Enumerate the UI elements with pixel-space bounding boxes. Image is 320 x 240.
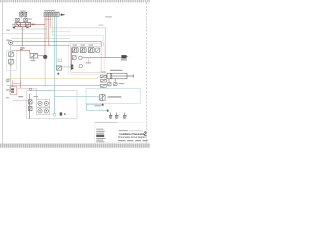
side symbol 2	[29, 106, 32, 110]
wire teal box top y90.4	[30, 89, 54, 91]
label below manifold	[44, 18, 50, 21]
filter symbol	[9, 52, 14, 57]
wire red y50.2	[12, 49, 30, 51]
wire teal vertical x86.4	[85, 103, 87, 110]
margin label y90	[6, 89, 9, 90]
wire pale green long y33.6	[3, 33, 47, 35]
manifold cell marks	[45, 13, 56, 15]
valve 1V1 mid	[30, 53, 38, 58]
wire pale green y31.8	[51, 31, 71, 33]
quad circle BR	[44, 109, 48, 113]
wire red y83.6 short	[13, 83, 21, 85]
wire red valve to gauge	[38, 55, 44, 57]
spring right of assembly	[31, 24, 33, 26]
label above box valve1	[73, 44, 77, 47]
drop red 2 from manifold	[48, 16, 50, 45]
label above manifold	[44, 9, 55, 12]
drop teal A from manifold	[53, 16, 55, 114]
drop pink from manifold	[50, 16, 52, 28]
wire teal y104.8	[86, 104, 101, 106]
circle at box top	[29, 88, 32, 91]
label above box valve2	[81, 44, 85, 47]
wire pink drop x105.7	[105, 28, 107, 58]
wire red drop to valve 1V	[29, 50, 31, 53]
wire teal y96.6 into box	[54, 96, 99, 98]
label above top-right text	[105, 16, 112, 17]
wire red drop into box x101.2	[100, 42, 102, 47]
quad circle BL	[38, 109, 42, 113]
margin label y80	[6, 79, 10, 80]
wire red long y41.6	[12, 41, 101, 43]
label below assembly	[20, 47, 25, 48]
margin label y40	[6, 40, 9, 41]
quad valve outer top	[37, 100, 50, 107]
pink dashed enclosure box	[69, 44, 104, 75]
wire pink right y27.9	[51, 27, 106, 29]
rod end tick	[133, 74, 135, 77]
label in box bottom	[86, 61, 91, 64]
fitting column label	[101, 71, 107, 74]
drop yellow from manifold	[52, 16, 54, 35]
right frame line	[146, 2, 148, 143]
drop greygreen from manifold	[46, 16, 48, 38]
small mark right	[64, 113, 65, 115]
wire pink drop x36.4	[35, 89, 37, 100]
teal end circle	[53, 113, 56, 116]
silencer 0Z2 hatched box right	[24, 12, 27, 16]
label right of fittings	[119, 82, 125, 85]
drop teal B from manifold	[55, 16, 57, 67]
quad valve outer bottom	[37, 107, 50, 114]
label near teal lines	[94, 104, 100, 107]
svg-text:Pneumatics circuit diagram: Pneumatics circuit diagram	[118, 136, 146, 139]
title block outline	[95, 123, 147, 143]
label right of valves	[28, 18, 32, 21]
title block logo block	[96, 135, 104, 137]
plug at teal line end 1	[102, 104, 104, 106]
fitting below cylinder 2	[114, 83, 117, 86]
wire orange long y85.7	[7, 85, 100, 87]
manifold distributor block	[44, 12, 59, 16]
plug at teal line end 2	[107, 110, 109, 112]
label above cylinder	[110, 70, 122, 71]
compressor source 0Z circle	[9, 40, 13, 44]
title small row above	[119, 129, 129, 132]
service unit box left	[7, 50, 17, 70]
wire red x12.8 into red box	[12, 80, 14, 87]
exhaust arrow right of manifold	[61, 14, 66, 16]
tiny valve near teal lower	[57, 66, 62, 70]
port mark below assembly right	[26, 27, 28, 28]
valve 1V1 bottom stub	[33, 58, 35, 61]
margin label y82	[6, 80, 9, 83]
wire teal y110.6	[86, 110, 106, 112]
silencer down 2	[115, 112, 118, 119]
wire dark vertical below assembly	[21, 27, 23, 47]
box valve 2V3	[88, 48, 94, 53]
fitting column symbol 1	[100, 75, 106, 78]
box valve 2V2	[80, 48, 86, 53]
wire yellow rise to fitting	[98, 76, 101, 78]
title block left col text rows	[96, 128, 103, 131]
flow control valve in teal box	[100, 94, 106, 101]
wire red stub above red box	[20, 80, 22, 88]
cylinder rod	[127, 75, 134, 77]
title block top dark line	[95, 122, 118, 124]
wire faint vertical gauge down	[44, 59, 46, 86]
small block mid box	[72, 56, 76, 60]
fitting column symbol 3	[100, 84, 106, 87]
wire green vertical from source	[10, 45, 12, 92]
quad circle TR	[44, 101, 48, 105]
silencer down 3	[123, 112, 126, 119]
connector block bottom left of box	[71, 65, 73, 70]
cylinder ports	[108, 79, 110, 83]
grey inner box	[71, 47, 101, 73]
inner left bar in box	[71, 48, 73, 70]
silencer down 1	[109, 112, 112, 119]
wire red y45.7	[12, 45, 71, 47]
teal box lower right	[86, 88, 140, 103]
fitting column symbol 2	[100, 79, 106, 82]
margin label y97	[6, 96, 9, 99]
label right of assembly	[32, 23, 35, 26]
left frame line	[2, 2, 4, 143]
title rule line	[130, 130, 143, 132]
red lockout box left	[10, 87, 17, 95]
bottom ruler strip	[0, 144, 150, 148]
tiny valve near teal upper	[58, 59, 61, 62]
wire grey vertical x20.7	[20, 50, 22, 80]
top ruler strip	[0, 0, 150, 2]
small dot below valve	[57, 73, 59, 75]
label in teal box	[108, 96, 122, 97]
small dark comp right of teal circle	[60, 112, 62, 115]
gauge dark circle	[43, 55, 47, 59]
label below switch	[121, 59, 127, 60]
wire greygreen y29	[13, 28, 47, 30]
regulator symbol	[9, 59, 14, 66]
title bottom tiny row	[118, 140, 126, 141]
port mark below assembly left	[13, 27, 15, 29]
wire red in box to switch	[82, 57, 121, 59]
quad circle TL	[38, 101, 42, 105]
wire red from assembly to manifold drop	[30, 24, 45, 26]
gauge circle bottom in box	[79, 64, 83, 68]
marks in red box	[11, 88, 14, 90]
label above quad block	[34, 95, 39, 98]
red core of valve assembly	[16, 24, 30, 26]
wire yellow y35.6	[53, 35, 104, 37]
wire yellow long y78.6	[7, 78, 98, 80]
grey box bottom-left cluster	[27, 90, 77, 118]
box valve 2V1	[72, 48, 78, 53]
label above box valve3	[89, 44, 93, 47]
stub below silencers	[20, 16, 22, 18]
manifold top ticks	[45, 11, 58, 13]
valve 0V1 small left	[16, 18, 20, 21]
wire teal into box y66.9	[56, 66, 71, 68]
pink stub in box	[87, 58, 89, 65]
wire greygreen y38.6	[11, 38, 70, 40]
wire yellow drop x103.2	[102, 36, 104, 47]
spring left of assembly	[12, 24, 15, 26]
dark vertical in cluster	[29, 94, 31, 119]
svg-text:Installation Pneumatik: Installation Pneumatik	[119, 132, 144, 136]
box valve 2V4 small	[96, 48, 100, 52]
pressure switch 1S1	[121, 55, 128, 58]
wire pink y100.8	[13, 100, 29, 102]
stub fitting to teal box	[103, 87, 105, 88]
side symbol 1	[29, 100, 32, 104]
label below valve 1V1	[31, 59, 36, 62]
silencer 0Z1 hatched box left	[20, 12, 23, 16]
valve 0V2 small right	[24, 18, 28, 21]
margin label y30	[6, 30, 10, 31]
cylinder 2A1 body	[107, 73, 127, 79]
label left cluster	[18, 96, 23, 97]
main start-up valve assembly 0V3	[15, 23, 31, 27]
gauge circle in box	[79, 56, 83, 60]
drop red 1 from manifold	[44, 16, 46, 55]
fitting below cylinder 1	[108, 83, 111, 86]
label above silencers	[20, 10, 25, 13]
wire pink y88.6	[17, 88, 37, 90]
